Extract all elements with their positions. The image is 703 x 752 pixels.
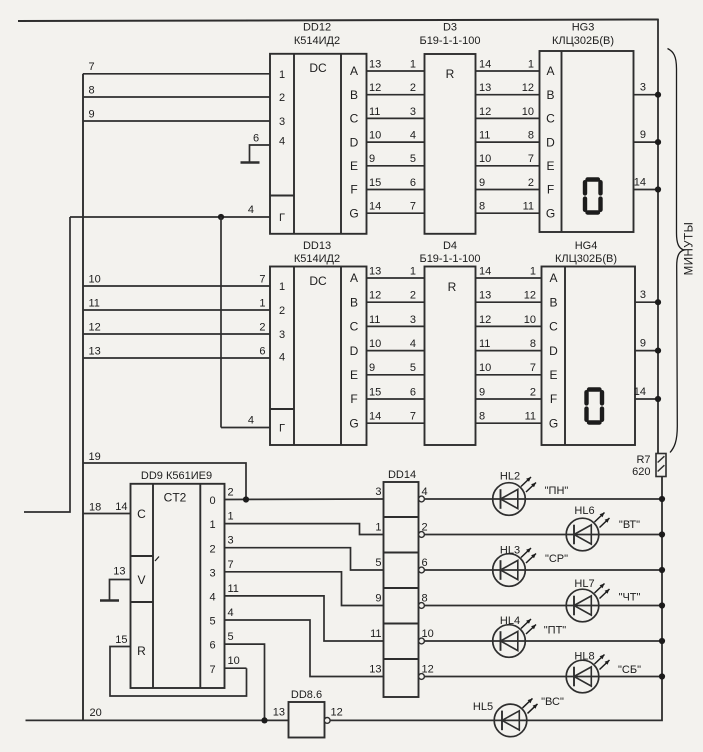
svg-text:14: 14 xyxy=(634,177,646,189)
svg-text:G: G xyxy=(349,206,358,220)
svg-text:A: A xyxy=(546,64,554,78)
wire DD9 out5 pin 4 to DD14 pin 13 xyxy=(225,607,384,677)
svg-text:11: 11 xyxy=(523,201,534,213)
inverter DD14 output pin 2 xyxy=(419,522,428,538)
svg-text:12: 12 xyxy=(331,707,343,719)
wire DD12 gamma net xyxy=(70,204,270,217)
svg-text:"ВТ": "ВТ" xyxy=(619,519,640,531)
svg-text:8: 8 xyxy=(479,411,485,423)
node junction out6 wire20 xyxy=(261,717,267,723)
wire input 10 to DD13 pin 7 xyxy=(83,273,270,286)
svg-text:13: 13 xyxy=(369,58,381,70)
node junction DD12 gamma xyxy=(218,214,224,220)
svg-text:8: 8 xyxy=(89,84,95,96)
svg-text:5: 5 xyxy=(209,616,215,628)
svg-text:9: 9 xyxy=(369,153,375,165)
svg-text:DC: DC xyxy=(309,274,327,288)
svg-text:"ВС": "ВС" xyxy=(541,696,564,708)
wire HG4 output pin 3 to bus xyxy=(635,289,658,302)
svg-text:HL7: HL7 xyxy=(574,578,594,590)
svg-text:3: 3 xyxy=(279,116,285,128)
svg-text:8: 8 xyxy=(479,201,485,213)
display HG4 box xyxy=(542,267,636,446)
wire 18 to DD9 C pin 14 xyxy=(83,501,131,514)
svg-text:C: C xyxy=(546,112,555,126)
svg-text:10: 10 xyxy=(89,273,101,285)
svg-text:DC: DC xyxy=(309,61,327,75)
svg-text:6: 6 xyxy=(253,133,259,145)
wire LED row HL6 xyxy=(425,534,663,536)
wire HG3 output pin 14 to bus xyxy=(634,177,659,190)
svg-text:6: 6 xyxy=(422,557,428,569)
svg-text:9: 9 xyxy=(479,177,485,189)
wire DD12 G to D3 pin 7 xyxy=(367,201,425,214)
inverter DD8.6 box xyxy=(273,702,343,738)
svg-text:R7: R7 xyxy=(636,454,650,466)
svg-text:"ПН": "ПН" xyxy=(545,485,569,497)
svg-text:3: 3 xyxy=(410,106,416,118)
svg-text:14: 14 xyxy=(369,201,381,213)
svg-text:7: 7 xyxy=(528,153,534,165)
svg-text:12: 12 xyxy=(422,664,434,676)
svg-text:9: 9 xyxy=(369,362,375,374)
svg-text:G: G xyxy=(546,206,555,220)
net label МИНУТЫ xyxy=(684,222,696,276)
svg-text:5: 5 xyxy=(375,557,381,569)
svg-text:3: 3 xyxy=(228,535,234,547)
LED HL6 xyxy=(566,505,640,551)
ground at DD12 pin4 xyxy=(241,161,260,164)
wire DD12 C to D3 pin 3 xyxy=(367,106,425,119)
wire input 7 to DD12 xyxy=(83,61,270,74)
svg-text:HL3: HL3 xyxy=(500,545,520,557)
svg-text:Г: Г xyxy=(279,423,285,435)
svg-text:D4: D4 xyxy=(443,240,457,252)
wire top supply rail xyxy=(18,20,658,22)
svg-text:4: 4 xyxy=(410,130,416,142)
wire 19 to output bus xyxy=(83,451,246,500)
wire LED row HL8 xyxy=(425,676,663,678)
node junction HL6 row xyxy=(659,531,665,537)
wire DD9 out4 pin 11 to DD14 pin 11 xyxy=(225,583,384,641)
svg-text:G: G xyxy=(549,416,558,430)
svg-text:12: 12 xyxy=(524,290,536,302)
wire input 9 to DD12 xyxy=(83,108,270,121)
svg-text:C: C xyxy=(137,507,146,521)
driver DD14 box xyxy=(384,482,419,697)
svg-text:DD14: DD14 xyxy=(388,469,416,481)
svg-text:A: A xyxy=(350,271,358,285)
svg-text:D: D xyxy=(350,344,359,358)
svg-text:2: 2 xyxy=(209,543,215,555)
svg-text:7: 7 xyxy=(89,61,95,73)
svg-text:B: B xyxy=(546,88,554,102)
svg-text:CT2: CT2 xyxy=(164,491,187,505)
wire LED row HL2 xyxy=(425,498,663,500)
wire right bus lower segment xyxy=(328,477,663,721)
wire LED row HL4 xyxy=(425,640,663,642)
svg-text:8: 8 xyxy=(422,593,428,605)
counter DD9 box xyxy=(131,484,225,688)
svg-text:11: 11 xyxy=(479,338,490,350)
LED HL3 xyxy=(493,545,568,587)
svg-text:D: D xyxy=(350,135,359,149)
svg-text:13: 13 xyxy=(369,664,381,676)
svg-text:9: 9 xyxy=(479,386,485,398)
svg-text:Б19-1-1-100: Б19-1-1-100 xyxy=(419,35,480,47)
svg-text:F: F xyxy=(547,183,554,197)
svg-text:R: R xyxy=(448,280,457,294)
svg-text:КЛЦ302Б(В): КЛЦ302Б(В) xyxy=(555,253,617,265)
svg-text:12: 12 xyxy=(369,82,381,94)
wire DD12 F to D3 pin 6 xyxy=(367,177,425,190)
svg-text:11: 11 xyxy=(228,583,239,595)
svg-text:D3: D3 xyxy=(443,22,457,34)
svg-text:12: 12 xyxy=(522,82,534,94)
wire LED row HL7 xyxy=(425,605,663,607)
svg-text:DD9 К561ИЕ9: DD9 К561ИЕ9 xyxy=(141,470,212,482)
svg-text:R: R xyxy=(446,67,455,81)
wire D4 pin 11 to HG4 D xyxy=(476,338,542,351)
wire LED row HL3 xyxy=(425,569,663,571)
wire D3 pin 8 to HG3 G xyxy=(476,201,540,214)
wire DD13 E to D4 pin 5 xyxy=(367,362,425,375)
svg-text:DD8.6: DD8.6 xyxy=(291,689,322,701)
svg-text:11: 11 xyxy=(370,628,381,640)
seven-segment digit 0 of HG3 xyxy=(585,180,601,213)
svg-text:4: 4 xyxy=(248,204,254,216)
svg-text:КЛЦ302Б(В): КЛЦ302Б(В) xyxy=(552,35,614,47)
svg-text:12: 12 xyxy=(369,290,381,302)
svg-text:9: 9 xyxy=(89,108,95,120)
svg-text:10: 10 xyxy=(422,628,434,640)
inverter DD8.6 output bubble xyxy=(324,718,330,724)
wire DD12 pin4 stub xyxy=(250,133,271,163)
svg-text:E: E xyxy=(549,368,557,382)
wire DD12 A to D3 pin 1 xyxy=(367,58,425,71)
wire D4 pin 12 to HG4 C xyxy=(476,314,542,327)
wire DD9 out0 pin 2 to DD14 pin 3 xyxy=(225,486,384,500)
svg-text:4: 4 xyxy=(248,415,254,427)
svg-text:0: 0 xyxy=(209,495,215,507)
svg-text:МИНУТЫ: МИНУТЫ xyxy=(684,222,696,276)
svg-text:F: F xyxy=(550,392,557,406)
brace minutes group xyxy=(668,49,685,453)
wire D3 pin 14 to HG3 A xyxy=(476,58,540,71)
resistor network D3 box xyxy=(425,54,476,234)
svg-text:5: 5 xyxy=(228,631,234,643)
counter DD9 label xyxy=(141,470,212,482)
svg-text:1: 1 xyxy=(279,69,285,81)
svg-text:HG3: HG3 xyxy=(572,22,595,34)
svg-text:9: 9 xyxy=(640,338,646,350)
wire DD12 D to D3 pin 4 xyxy=(367,130,425,143)
svg-text:10: 10 xyxy=(369,338,381,350)
wire D4 pin 8 to HG4 G xyxy=(476,411,542,424)
inverter DD14 output pin 4 xyxy=(419,486,428,502)
seven-segment digit 0 of HG4 xyxy=(587,390,603,423)
resistor R7 value label xyxy=(632,454,650,478)
wire input 12 to DD13 pin 2 xyxy=(83,321,270,334)
svg-text:4: 4 xyxy=(279,352,285,364)
svg-text:1: 1 xyxy=(209,519,215,531)
decoder DD13 label xyxy=(294,240,340,265)
wire D3 pin 11 to HG3 D xyxy=(476,130,540,143)
wire input 8 to DD12 xyxy=(83,84,270,97)
node junction HG3 pin 14 xyxy=(655,186,661,192)
wire D3 pin 12 to HG3 C xyxy=(476,106,540,119)
wire D3 pin 10 to HG3 E xyxy=(476,153,540,166)
wire DD13 G to D4 pin 7 xyxy=(367,411,425,424)
svg-text:DD12: DD12 xyxy=(303,22,331,34)
svg-text:1: 1 xyxy=(259,297,265,309)
wire D4 pin 14 to HG4 A xyxy=(476,265,542,278)
svg-text:12: 12 xyxy=(479,314,491,326)
svg-text:18: 18 xyxy=(89,502,101,514)
node junction wire19 out0 xyxy=(243,496,249,502)
svg-text:10: 10 xyxy=(479,153,491,165)
svg-text:10: 10 xyxy=(369,130,381,142)
svg-text:3: 3 xyxy=(279,329,285,341)
svg-text:13: 13 xyxy=(479,82,491,94)
inverter DD14 output pin 6 xyxy=(419,557,428,573)
display HG3 box xyxy=(540,51,634,232)
wire DD9 out2 pin 3 to DD14 pin 5 xyxy=(225,535,384,570)
svg-text:11: 11 xyxy=(89,297,100,309)
svg-text:9: 9 xyxy=(375,593,381,605)
wire DD9 V pin 13 stub xyxy=(110,566,131,601)
node junction HL8 row xyxy=(659,673,665,679)
display HG3 label xyxy=(552,22,614,48)
display HG4 label xyxy=(555,240,617,265)
svg-text:7: 7 xyxy=(209,664,215,676)
svg-text:R: R xyxy=(137,644,146,658)
wire DD13 gamma stub xyxy=(221,415,270,428)
svg-text:15: 15 xyxy=(115,634,127,646)
wire DD12 E to D3 pin 5 xyxy=(367,153,425,166)
svg-text:3: 3 xyxy=(640,289,646,301)
wire D3 pin 9 to HG3 F xyxy=(476,177,540,190)
svg-text:G: G xyxy=(349,416,358,430)
node junction HG4 pin 14 xyxy=(655,396,661,402)
svg-text:"СР": "СР" xyxy=(545,553,568,565)
driver DD14 label xyxy=(388,469,416,481)
svg-text:HL4: HL4 xyxy=(500,615,520,627)
svg-text:13: 13 xyxy=(273,707,285,719)
svg-text:2: 2 xyxy=(410,82,416,94)
node junction HL2 row xyxy=(659,496,665,502)
wire DD9 out3 pin 7 to DD14 pin 9 xyxy=(225,559,384,606)
wire 20 bottom rail xyxy=(26,707,289,720)
svg-text:Г: Г xyxy=(279,212,285,224)
wire gamma net left drop xyxy=(24,217,70,512)
svg-text:2: 2 xyxy=(279,92,285,104)
svg-text:HL6: HL6 xyxy=(574,505,594,517)
svg-text:1: 1 xyxy=(410,58,416,70)
svg-text:11: 11 xyxy=(369,314,380,326)
svg-text:12: 12 xyxy=(479,106,491,118)
svg-text:B: B xyxy=(350,295,358,309)
ground at DD9 V pin xyxy=(100,599,119,602)
svg-text:9: 9 xyxy=(640,129,646,141)
wire DD9 out1 pin 1 to DD14 pin 1 xyxy=(225,511,384,535)
svg-text:Б19-1-1-100: Б19-1-1-100 xyxy=(419,253,480,265)
svg-text:C: C xyxy=(549,320,558,334)
svg-text:14: 14 xyxy=(115,501,127,513)
node junction HL4 row xyxy=(659,638,665,644)
svg-text:10: 10 xyxy=(479,362,491,374)
svg-text:14: 14 xyxy=(479,58,491,70)
svg-text:8: 8 xyxy=(528,130,534,142)
node junction HL3 row xyxy=(659,567,665,573)
svg-text:К514ИД2: К514ИД2 xyxy=(294,35,340,47)
svg-text:HG4: HG4 xyxy=(575,240,598,252)
wire DD9 R pin 15 reset loop xyxy=(110,634,247,696)
svg-text:4: 4 xyxy=(228,607,234,619)
svg-text:7: 7 xyxy=(530,362,536,374)
inverter DD8.6 label xyxy=(291,689,322,701)
LED HL8 xyxy=(566,651,641,693)
svg-text:14: 14 xyxy=(369,411,381,423)
svg-text:B: B xyxy=(549,295,557,309)
svg-text:2: 2 xyxy=(530,386,536,398)
wire D4 pin 13 to HG4 B xyxy=(476,290,542,303)
wire HG4 output pin 14 to bus xyxy=(634,386,658,399)
inverter DD14 output pin 8 xyxy=(419,593,428,609)
svg-text:HL5: HL5 xyxy=(473,701,493,713)
svg-text:4: 4 xyxy=(422,486,428,498)
wire input 13 to DD13 pin 6 xyxy=(83,345,270,358)
svg-text:C: C xyxy=(350,320,359,334)
decoder DD13 box xyxy=(270,267,367,446)
svg-text:7: 7 xyxy=(228,559,234,571)
wire DD13 A to D4 pin 1 xyxy=(367,265,425,278)
svg-text:6: 6 xyxy=(259,345,265,357)
svg-text:6: 6 xyxy=(410,177,416,189)
svg-text:D: D xyxy=(549,344,558,358)
wire DD13 C to D4 pin 3 xyxy=(367,314,425,327)
svg-text:F: F xyxy=(350,392,357,406)
svg-text:10: 10 xyxy=(522,106,534,118)
svg-text:10: 10 xyxy=(228,655,240,667)
svg-text:14: 14 xyxy=(634,386,646,398)
svg-text:1: 1 xyxy=(228,511,234,523)
svg-text:5: 5 xyxy=(410,153,416,165)
svg-text:6: 6 xyxy=(410,386,416,398)
wire DD13 F to D4 pin 6 xyxy=(367,386,425,399)
wire HG3 output pin 9 to bus xyxy=(634,129,659,142)
svg-text:2: 2 xyxy=(279,305,285,317)
svg-text:C: C xyxy=(350,112,359,126)
wire left input bus xyxy=(82,74,84,721)
svg-text:E: E xyxy=(350,368,358,382)
svg-text:5: 5 xyxy=(410,362,416,374)
svg-text:2: 2 xyxy=(259,321,265,333)
inverter DD14 output pin 12 xyxy=(419,664,434,680)
svg-text:E: E xyxy=(350,159,358,173)
svg-text:F: F xyxy=(350,183,357,197)
resistor network D4 label xyxy=(419,240,480,265)
svg-text:1: 1 xyxy=(279,281,285,293)
node junction HL7 row xyxy=(659,602,665,608)
wire right bus upper segment xyxy=(657,19,659,454)
svg-text:1: 1 xyxy=(375,522,381,534)
svg-text:"ЧТ": "ЧТ" xyxy=(619,592,641,604)
svg-text:D: D xyxy=(546,135,555,149)
inverter DD14 output pin 10 xyxy=(419,628,434,644)
svg-text:4: 4 xyxy=(410,338,416,350)
svg-text:620: 620 xyxy=(632,466,650,478)
svg-text:4: 4 xyxy=(279,136,285,148)
resistor R7 xyxy=(656,454,666,477)
svg-text:19: 19 xyxy=(89,451,101,463)
svg-text:7: 7 xyxy=(259,273,265,285)
wire HG4 output pin 9 to bus xyxy=(635,338,658,351)
resistor network D3 label xyxy=(419,22,480,48)
svg-text:2: 2 xyxy=(410,290,416,302)
svg-text:A: A xyxy=(549,271,557,285)
svg-text:20: 20 xyxy=(90,707,102,719)
svg-text:V: V xyxy=(137,573,145,587)
node junction HG3 pin 3 xyxy=(655,92,661,98)
node junction HG4 pin 3 xyxy=(655,299,661,305)
node junction HG4 pin 9 xyxy=(655,348,661,354)
svg-text:12: 12 xyxy=(89,321,101,333)
svg-text:3: 3 xyxy=(375,486,381,498)
svg-text:2: 2 xyxy=(228,487,234,499)
wire DD13 B to D4 pin 2 xyxy=(367,290,425,303)
svg-text:7: 7 xyxy=(410,411,416,423)
svg-text:A: A xyxy=(350,64,358,78)
LED HL2 xyxy=(493,471,569,516)
decoder DD12 label xyxy=(294,22,340,48)
svg-text:2: 2 xyxy=(422,522,428,534)
svg-text:13: 13 xyxy=(479,290,491,302)
svg-text:15: 15 xyxy=(369,386,381,398)
svg-text:11: 11 xyxy=(369,106,380,118)
svg-text:11: 11 xyxy=(479,130,490,142)
svg-text:13: 13 xyxy=(89,345,101,357)
svg-text:13: 13 xyxy=(369,265,381,277)
wire HG3 output pin 3 to bus xyxy=(634,82,659,95)
wire DD13 D to D4 pin 4 xyxy=(367,338,425,351)
svg-text:11: 11 xyxy=(525,411,536,423)
svg-text:1: 1 xyxy=(528,58,534,70)
wire D3 pin 13 to HG3 B xyxy=(476,82,540,95)
wire D4 pin 10 to HG4 E xyxy=(476,362,542,375)
LED HL4 xyxy=(493,615,567,657)
svg-text:1: 1 xyxy=(530,265,536,277)
resistor network D4 box xyxy=(425,267,476,446)
svg-text:HL2: HL2 xyxy=(500,471,520,483)
svg-text:15: 15 xyxy=(369,177,381,189)
svg-text:"ПТ": "ПТ" xyxy=(544,625,567,637)
wire D4 pin 9 to HG4 F xyxy=(476,386,542,399)
svg-text:"СБ": "СБ" xyxy=(618,664,641,676)
svg-text:HL8: HL8 xyxy=(574,651,594,663)
svg-text:7: 7 xyxy=(410,201,416,213)
svg-text:К514ИД2: К514ИД2 xyxy=(294,253,340,265)
svg-text:1: 1 xyxy=(410,265,416,277)
svg-text:6: 6 xyxy=(209,640,215,652)
svg-text:3: 3 xyxy=(209,567,215,579)
svg-text:E: E xyxy=(546,159,554,173)
LED HL5 xyxy=(473,696,564,737)
svg-text:2: 2 xyxy=(528,177,534,189)
svg-text:13: 13 xyxy=(113,566,125,578)
wire DD9 out7 pin 10 to reset loop xyxy=(225,655,247,668)
node junction HG3 pin 9 xyxy=(655,139,661,145)
